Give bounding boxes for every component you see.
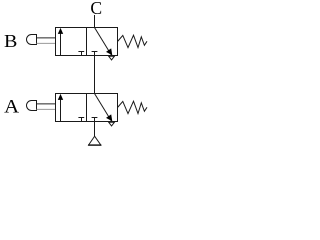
valve B push-button stem upper line [37, 37, 56, 39]
valve A right square blocked port 1 T [92, 118, 98, 122]
valve B right square flow path 2->3 with arrow [95, 28, 113, 56]
valve A push-button stem lower line [37, 108, 56, 110]
wire: node C to valve B port 2 [94, 15, 96, 28]
wire: valve A port 1 down to exhaust [94, 122, 96, 137]
valve B push-button head [27, 35, 37, 45]
valve A left square blocked port T [78, 118, 84, 122]
exhaust triangle base bar [88, 144, 101, 146]
valve A exhaust triangle at port 3 [109, 122, 115, 126]
wire: valve B port 1 to valve A port 2 [94, 56, 96, 94]
exhaust triangle symbol at line end [89, 136, 101, 145]
valve B push-button stem lower line [37, 42, 56, 44]
valve A right square flow path 2->3 with arrow [95, 94, 113, 122]
valve B left square blocked port T [78, 52, 84, 56]
valve A left square flow arrow 1->2 [58, 94, 63, 122]
valve A push-button head [27, 101, 37, 111]
valve A body (two position squares) [56, 94, 118, 122]
valve B return spring [118, 35, 148, 47]
valve A return spring [118, 101, 148, 113]
svg-text:B: B [4, 31, 17, 51]
valve B body (two position squares) [56, 28, 118, 56]
valve A push-button stem upper line [37, 103, 56, 105]
valve B exhaust triangle at port 3 [109, 56, 115, 60]
valve B right square blocked port 1 T [92, 52, 98, 56]
svg-text:C: C [90, 0, 102, 18]
valve B left square flow arrow 1->2 [58, 28, 63, 56]
svg-text:A: A [4, 98, 20, 118]
